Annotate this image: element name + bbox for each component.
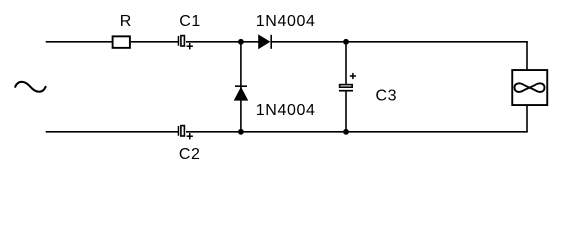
resistor R xyxy=(113,36,130,48)
junction node B (top of C3 branch) xyxy=(343,39,349,45)
wire D1 to top-right corner xyxy=(271,41,528,43)
capacitor C1 (polarized) xyxy=(178,36,192,50)
wire top-left (input to resistor R) xyxy=(46,41,112,43)
wire C1 to diode D1 (through node A) xyxy=(186,41,259,43)
wire C2 to bottom-right corner xyxy=(186,131,528,133)
svg-text:1N4004: 1N4004 xyxy=(256,102,316,119)
svg-text:1N4004: 1N4004 xyxy=(256,13,316,30)
wire vertical D2 branch xyxy=(240,42,242,132)
diode D2 1N4004 (vertical, pointing up) xyxy=(234,86,247,100)
svg-text:R: R xyxy=(120,13,132,30)
svg-text:C3: C3 xyxy=(376,87,398,104)
svg-text:C1: C1 xyxy=(179,13,201,30)
wire resistor to C1 xyxy=(131,41,178,43)
junction node A (top of D2 branch) xyxy=(238,39,244,45)
svg-text:C2: C2 xyxy=(179,146,201,163)
wire C3 to bottom wire xyxy=(345,91,347,132)
load box xyxy=(512,70,547,105)
wire bottom-left (input to C2) xyxy=(46,131,178,133)
junction node C (bottom of D2 branch) xyxy=(238,129,244,135)
capacitor C3 (polarized, vertical) xyxy=(339,73,356,91)
wire right vertical down to load box top xyxy=(526,42,528,71)
junction node D (bottom of C3 branch) xyxy=(343,129,349,135)
capacitor C2 (polarized) xyxy=(178,126,192,140)
wire vertical C3 branch xyxy=(345,42,347,85)
load infinity symbol xyxy=(515,83,545,92)
wire load box bottom to bottom-right corner xyxy=(526,105,528,132)
AC source symbol (tilde) xyxy=(15,82,45,92)
diode D1 1N4004 (horizontal) xyxy=(259,35,272,49)
